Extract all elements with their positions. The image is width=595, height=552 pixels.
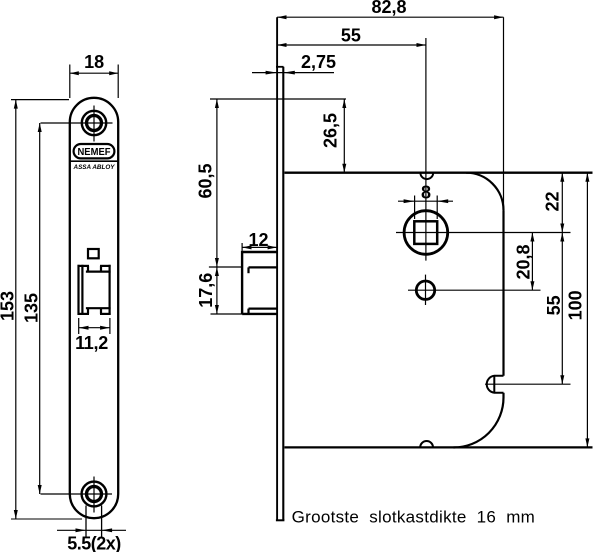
bottom screw hole crosshair h [41, 493, 113, 495]
bottom screw hole outer [82, 482, 107, 507]
svg-text:22: 22 [543, 191, 563, 211]
dim 18 ext lines [69, 65, 71, 99]
faceplate strip right line (side view) [282, 67, 284, 521]
centerline vertical upper [425, 38, 427, 261]
faceplate outline (front view) [70, 98, 118, 518]
dim 18 line [70, 72, 118, 74]
dim 22 line [561, 173, 563, 233]
dim 55 vertical line [561, 233, 563, 385]
svg-text:12: 12 [248, 230, 268, 250]
strip bottom tick [276, 519, 285, 521]
svg-text:100: 100 [565, 290, 585, 320]
dim 2,75 line [252, 72, 334, 74]
case right edge [502, 210, 504, 376]
svg-text:NEMEF: NEMEF [78, 147, 111, 158]
svg-text:153: 153 [0, 291, 18, 321]
svg-text:60,5: 60,5 [196, 163, 216, 198]
centerline notch horizontal [485, 383, 571, 385]
bottom screw hole inner [87, 487, 102, 502]
case top notch [420, 173, 433, 179]
case bottom-right corner [454, 393, 504, 448]
top screw hole crosshair h [41, 122, 113, 124]
latch side view top edge [242, 251, 277, 253]
top screw hole inner [87, 116, 102, 131]
case bottom edge [285, 446, 593, 448]
svg-text:55: 55 [341, 25, 361, 45]
fixing hole [416, 281, 434, 299]
svg-text:17,6: 17,6 [196, 273, 216, 308]
case right edge notch [487, 376, 504, 393]
latch side view inner bottom line [249, 308, 278, 310]
dim 8 line [398, 200, 453, 202]
spindle square hole [414, 221, 437, 244]
case top-right corner arc [466, 173, 504, 211]
dim 153 ext top [11, 99, 69, 101]
reference line latch bottom ext [211, 313, 243, 315]
centerline vertical hole [425, 275, 427, 305]
faceplate strip left line (side view) [276, 17, 278, 520]
dim 100 line [586, 173, 588, 448]
svg-text:18: 18 [84, 52, 104, 72]
dim 12 ext line [241, 243, 243, 251]
bottom screw hole crosshair v [93, 477, 95, 513]
svg-text:8: 8 [421, 182, 431, 202]
svg-text:ASSA ABLOY: ASSA ABLOY [73, 164, 116, 171]
dim 55 horizontal line [277, 44, 426, 46]
dim 8 ext lines [414, 196, 416, 220]
dim 12 line [242, 246, 277, 248]
dim 60,5 line [216, 99, 218, 267]
case bottom notch [420, 441, 433, 447]
svg-text:135: 135 [21, 293, 41, 323]
faceplate divider line under logo [70, 160, 118, 162]
small square hole [88, 249, 99, 258]
dim 26,5 line [343, 99, 345, 173]
svg-text:5.5(2x): 5.5(2x) [67, 534, 121, 552]
strip top tick [276, 66, 284, 68]
latch side view bottom edge [242, 313, 277, 315]
dim 82,8 line [277, 16, 503, 18]
reference line latch top ext [209, 266, 242, 268]
latch side view inner top line [249, 266, 278, 268]
latch side view top stub [247, 267, 249, 273]
dim 11,2 ext lines [78, 318, 80, 334]
dim 5.5(2x) ext lines [85, 506, 87, 538]
svg-text:26,5: 26,5 [321, 113, 341, 148]
svg-text:Grootste slotkastdikte 16 mm: Grootste slotkastdikte 16 mm [292, 507, 536, 526]
svg-text:82,8: 82,8 [371, 0, 406, 17]
centerline hole horizontal [408, 289, 541, 291]
svg-text:11,2: 11,2 [75, 333, 108, 353]
reference line top (60,5 / 26,5) [210, 98, 346, 100]
top screw hole outer [82, 111, 106, 135]
dim 153 line [15, 100, 17, 519]
dim 153 ext bottom [11, 518, 82, 520]
dim 17,6 line [216, 267, 218, 314]
centerline spindle horizontal [396, 232, 571, 234]
svg-text:55: 55 [544, 295, 564, 315]
top screw hole crosshair v [93, 106, 95, 142]
notch chord line [493, 376, 495, 393]
follower circle [404, 211, 448, 255]
svg-text:20,8: 20,8 [514, 244, 534, 279]
svg-text:2,75: 2,75 [301, 52, 336, 72]
lock case top edge [285, 172, 593, 174]
dim 20,8 line [531, 233, 533, 291]
plate apex tick [90, 97, 98, 99]
dim 135 line [39, 123, 41, 494]
latch cutout front view [78, 265, 111, 315]
dim 11,2 line [79, 327, 110, 329]
latch side view front face [241, 251, 243, 314]
dim 5.5(2x) line [57, 529, 126, 531]
latch side view bottom stub [247, 309, 249, 314]
NEMEF logo stadium [74, 144, 115, 158]
case right ext line up to dim 82,8 [503, 17, 505, 210]
